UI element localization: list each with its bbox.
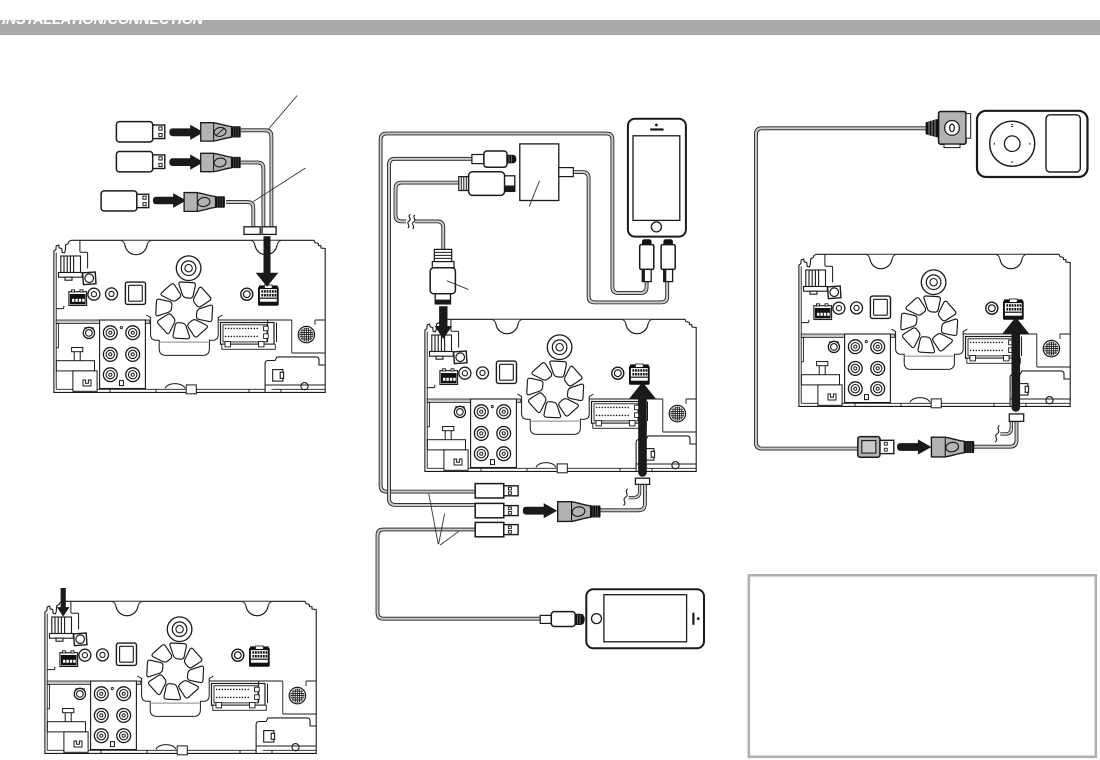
wire: USB extension cable 1 <box>241 130 272 227</box>
callout leader: three cables <box>429 494 460 545</box>
iPod classic <box>977 111 1088 177</box>
iPhone (portrait) <box>628 119 686 237</box>
arrow: plug USB device 3 <box>153 193 186 208</box>
wire: Lightning-USB cable (lower iPhone) <box>378 530 541 619</box>
head unit D (bottom-left) <box>45 601 316 755</box>
wire: USB extension cable 3 <box>226 202 253 228</box>
Lightning plug 2 (under iPhone) <box>661 239 675 281</box>
arrow: USB into unit C <box>1002 317 1030 412</box>
cable break symbol <box>405 214 416 229</box>
USB device 2 <box>116 152 164 172</box>
cable end tag A <box>244 227 260 235</box>
USB female connector (middle) <box>558 502 601 522</box>
USB plug 2 <box>475 503 518 517</box>
cable end tag (unit B USB) <box>635 478 649 484</box>
Lightning plug (bottom iPhone) <box>540 612 585 627</box>
head unit B (middle) <box>425 319 696 473</box>
USB female connector 2 <box>201 153 241 171</box>
HDMI plug (to head unit B) <box>430 249 455 304</box>
HDMI plug (to adapter) <box>459 172 515 196</box>
iPhone (landscape, bottom) <box>586 589 704 648</box>
wire: unused lead stub (unit C) <box>999 421 1012 434</box>
wire: USB extension cable 2 <box>241 163 264 228</box>
wire: HDMI cable <box>396 183 459 250</box>
callout leader: AV adapter <box>529 181 539 207</box>
arrow: HDMI port unit D <box>57 588 70 617</box>
cable end tag B <box>262 227 276 235</box>
wire: AV adapter to iPhone <box>573 172 667 302</box>
head unit C (right) <box>799 254 1070 407</box>
wire: Lightning-USB cable (iPhone upper) <box>381 134 647 492</box>
30-pin iPod connector <box>926 112 971 148</box>
break squiggle (unit C stub) <box>994 424 1000 442</box>
cable end tag (unit C USB) <box>1009 414 1023 422</box>
USB female connector 3 <box>184 193 225 212</box>
Lightning-digital AV adapter box <box>520 144 559 201</box>
note box (bottom right) <box>749 575 1096 757</box>
USB female connector 1 <box>201 123 241 141</box>
arrow: plug into USB female (middle) <box>523 503 557 518</box>
wire: USB female to unit C <box>973 421 1017 447</box>
Lightning plug 1 (under iPhone) <box>640 239 654 281</box>
wire: USB female to unit B <box>600 485 645 511</box>
callout leader line 1 <box>268 96 297 130</box>
callout leader line 2 <box>253 168 305 202</box>
USB plug (right, gray) <box>858 437 894 458</box>
wire: iPod 30-pin USB cable <box>756 128 926 448</box>
arrow: plug USB device 1 <box>169 125 203 140</box>
USB device 3 <box>101 191 149 211</box>
arrow: plug into USB female (right) <box>897 439 931 454</box>
USB plug 3 <box>475 522 518 536</box>
arrow: USB into unit B <box>629 382 657 477</box>
USB female connector (right) <box>931 437 974 457</box>
break squiggle (unit B stub) <box>623 488 629 506</box>
arrow: HDMI into unit B <box>435 306 452 339</box>
arrow overlay unit A <box>256 236 279 287</box>
USB device 1 <box>116 122 164 142</box>
wire: unused lead stub (unit B) <box>627 485 640 498</box>
wire: Lightning-USB cable (adapter) <box>389 159 476 505</box>
USB plug 1 <box>475 484 518 498</box>
arrow: plug USB device 2 <box>169 155 203 170</box>
callout leader: HDMI cable <box>447 281 469 290</box>
head unit A (top-left) <box>54 240 325 393</box>
header bar <box>0 20 1100 35</box>
Lightning plug (to adapter) <box>472 151 517 167</box>
